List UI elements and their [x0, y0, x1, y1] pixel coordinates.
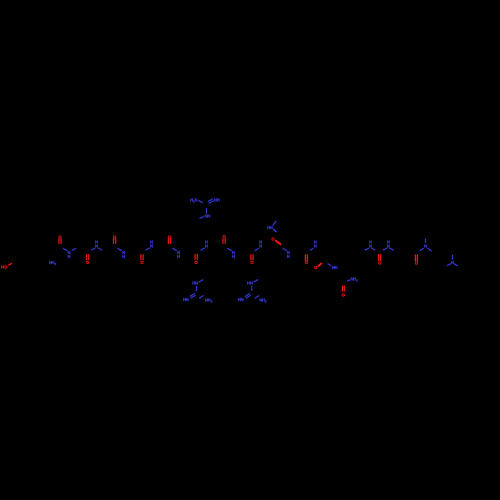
- bond CH2-N16 vertical, blue half: [452, 255, 454, 259]
- bond Cguan-NH2, blue half (arg2): [255, 296, 259, 298]
- svg-text:N: N: [424, 244, 427, 249]
- double bond C5=O5, red half: [168, 239, 170, 244]
- bond C1-N2, blue half: [63, 249, 67, 251]
- svg-text:H: H: [287, 254, 290, 259]
- svg-text:H: H: [122, 254, 125, 259]
- bond Cguan-NH vertical, blue half: [205, 208, 207, 213]
- bond Cphenyl-N13, blue half: [365, 248, 368, 250]
- bond Cguan-NH2, blue half (arg1): [200, 296, 204, 298]
- bond C12-NH2, blue half: [347, 280, 350, 281]
- bond HN-Cguan vertical, blue half (arg2): [251, 286, 253, 290]
- chain HN (bottom arg1): [192, 281, 198, 286]
- svg-text:N: N: [387, 243, 390, 248]
- double bond C1=O1, red half: [59, 239, 61, 244]
- bond N13-Curea, blue half: [372, 248, 375, 250]
- bond HN-CH2, blue half (arg1): [199, 280, 202, 282]
- svg-text:N: N: [451, 260, 454, 265]
- double bond C12=O12, red half: [343, 286, 345, 291]
- svg-text:N: N: [205, 244, 208, 249]
- alpha-amine NH2 of residue1: [49, 260, 57, 266]
- bond C14-N15, blue half: [420, 248, 423, 250]
- bond C10-N11, blue half: [310, 249, 313, 251]
- bond C5-N6, blue half: [173, 249, 177, 251]
- guanidine NH2 (bottom arg2): [259, 298, 267, 304]
- side amide NH2 (carboxamide): [351, 277, 358, 283]
- bond HN-CH2, blue half (arg2): [254, 280, 257, 282]
- svg-text:H: H: [217, 197, 220, 202]
- amide N10 (N over H, low): [287, 250, 290, 259]
- bond N14-CH2, blue half: [390, 248, 393, 250]
- bond O-C(phenol ring), red half: [9, 263, 12, 265]
- bond C6-N7, blue half: [201, 248, 204, 250]
- amide N5 (H over N, up): [150, 240, 153, 249]
- amide N3 (H over N, up): [95, 240, 98, 249]
- double bond Curea=O13, red half: [379, 255, 381, 261]
- urea N14 (H over N): [387, 239, 390, 248]
- amide N7 (H over N, up): [205, 240, 208, 249]
- guanidine NH2 (bottom arg1): [205, 297, 213, 303]
- double bond Cguan=NH hash (arg2): [245, 294, 250, 298]
- svg-text:N: N: [195, 197, 198, 202]
- bond C8-N9, blue half: [255, 249, 258, 251]
- svg-text:H: H: [232, 254, 235, 259]
- hydroxyl HO (phenol oxygen): [1, 264, 8, 269]
- bond N3-Calpha3, blue half: [98, 248, 101, 250]
- double bond C9=O9 thick red half: [276, 241, 281, 244]
- svg-text:N: N: [195, 281, 198, 286]
- svg-text:H: H: [335, 265, 338, 270]
- svg-text:H: H: [207, 213, 210, 218]
- bond C3-N4, blue half: [118, 249, 122, 251]
- svg-text:N: N: [369, 243, 372, 248]
- guanidine =NH (bottom arg1): [183, 297, 189, 302]
- svg-text:N: N: [250, 281, 253, 286]
- bond Nring-C2 bold wedge, blue half: [274, 229, 276, 231]
- double bond C7=O7, red half: [223, 239, 225, 243]
- amide N6 (N over H, low): [177, 250, 180, 259]
- guanidine =NH (bottom arg2): [238, 297, 244, 302]
- double bond C3=O3, red half: [114, 239, 116, 244]
- amide N9 (H over N, up): [259, 240, 262, 249]
- double bond C2=O2, red half: [87, 255, 89, 260]
- amide N8 (N over H, low): [232, 250, 235, 259]
- bond C4-N5, blue half: [146, 248, 149, 250]
- svg-text:N: N: [270, 225, 273, 230]
- bond NH-CH2, blue half: [200, 217, 203, 218]
- bond H2N-Cguan, blue half: [199, 201, 203, 203]
- bond C11-N12, blue half: [328, 264, 331, 266]
- ring amine HN (pyrrolidine): [267, 225, 273, 230]
- bond C2-N3, blue half: [92, 248, 95, 250]
- bond N15-CH3 up, blue half: [425, 239, 427, 242]
- bond HN-Cguan vertical, blue half (arg1): [196, 286, 198, 290]
- bond N16-CH3 left, blue half: [447, 264, 450, 265]
- double bond Cguan=NH hash (arg1): [190, 294, 195, 298]
- urea N13 (H over N): [369, 239, 372, 248]
- svg-text:N: N: [314, 244, 317, 249]
- guanidine =NH (top arg): [214, 197, 220, 202]
- double bond C8=O8, red half: [251, 255, 253, 260]
- svg-text:N: N: [95, 244, 98, 249]
- double bond C11=O11 thick red half: [318, 264, 321, 266]
- svg-text:N: N: [259, 244, 262, 249]
- double bond C14=O14, red half: [415, 255, 417, 261]
- bond N15-CH2, blue half: [428, 248, 431, 251]
- svg-text:N: N: [150, 244, 153, 249]
- svg-text:H: H: [68, 254, 71, 259]
- bond C9-N10, blue half: [283, 249, 286, 251]
- double bond Cguan=NH hash, blue: [208, 199, 213, 203]
- double bond C10=O10, red half: [305, 255, 307, 261]
- bond Nring-CH2, blue half: [273, 221, 276, 225]
- bond N16-CH3 right, blue half: [454, 264, 457, 266]
- chain HN (bottom arg2): [247, 281, 253, 286]
- amide N11 (H over N, up): [314, 240, 317, 249]
- bond N2-Calpha2, blue half: [72, 248, 76, 250]
- amide N4 (N over H, low): [122, 250, 125, 259]
- amide N2 (N over H, low): [68, 250, 71, 259]
- bond C7-N8, blue half: [228, 249, 232, 251]
- double bond C6=O6, red half: [195, 255, 197, 260]
- guanidine H2N (top arg): [190, 197, 198, 203]
- svg-text:N: N: [241, 297, 244, 302]
- guanidine NH chain (top arg): [205, 213, 211, 218]
- bond Curea-N14, blue half: [383, 248, 387, 250]
- svg-text:N: N: [186, 297, 189, 302]
- double bond C4=O4, red half: [141, 255, 143, 260]
- amide NH12: [332, 265, 338, 270]
- svg-text:H: H: [177, 254, 180, 259]
